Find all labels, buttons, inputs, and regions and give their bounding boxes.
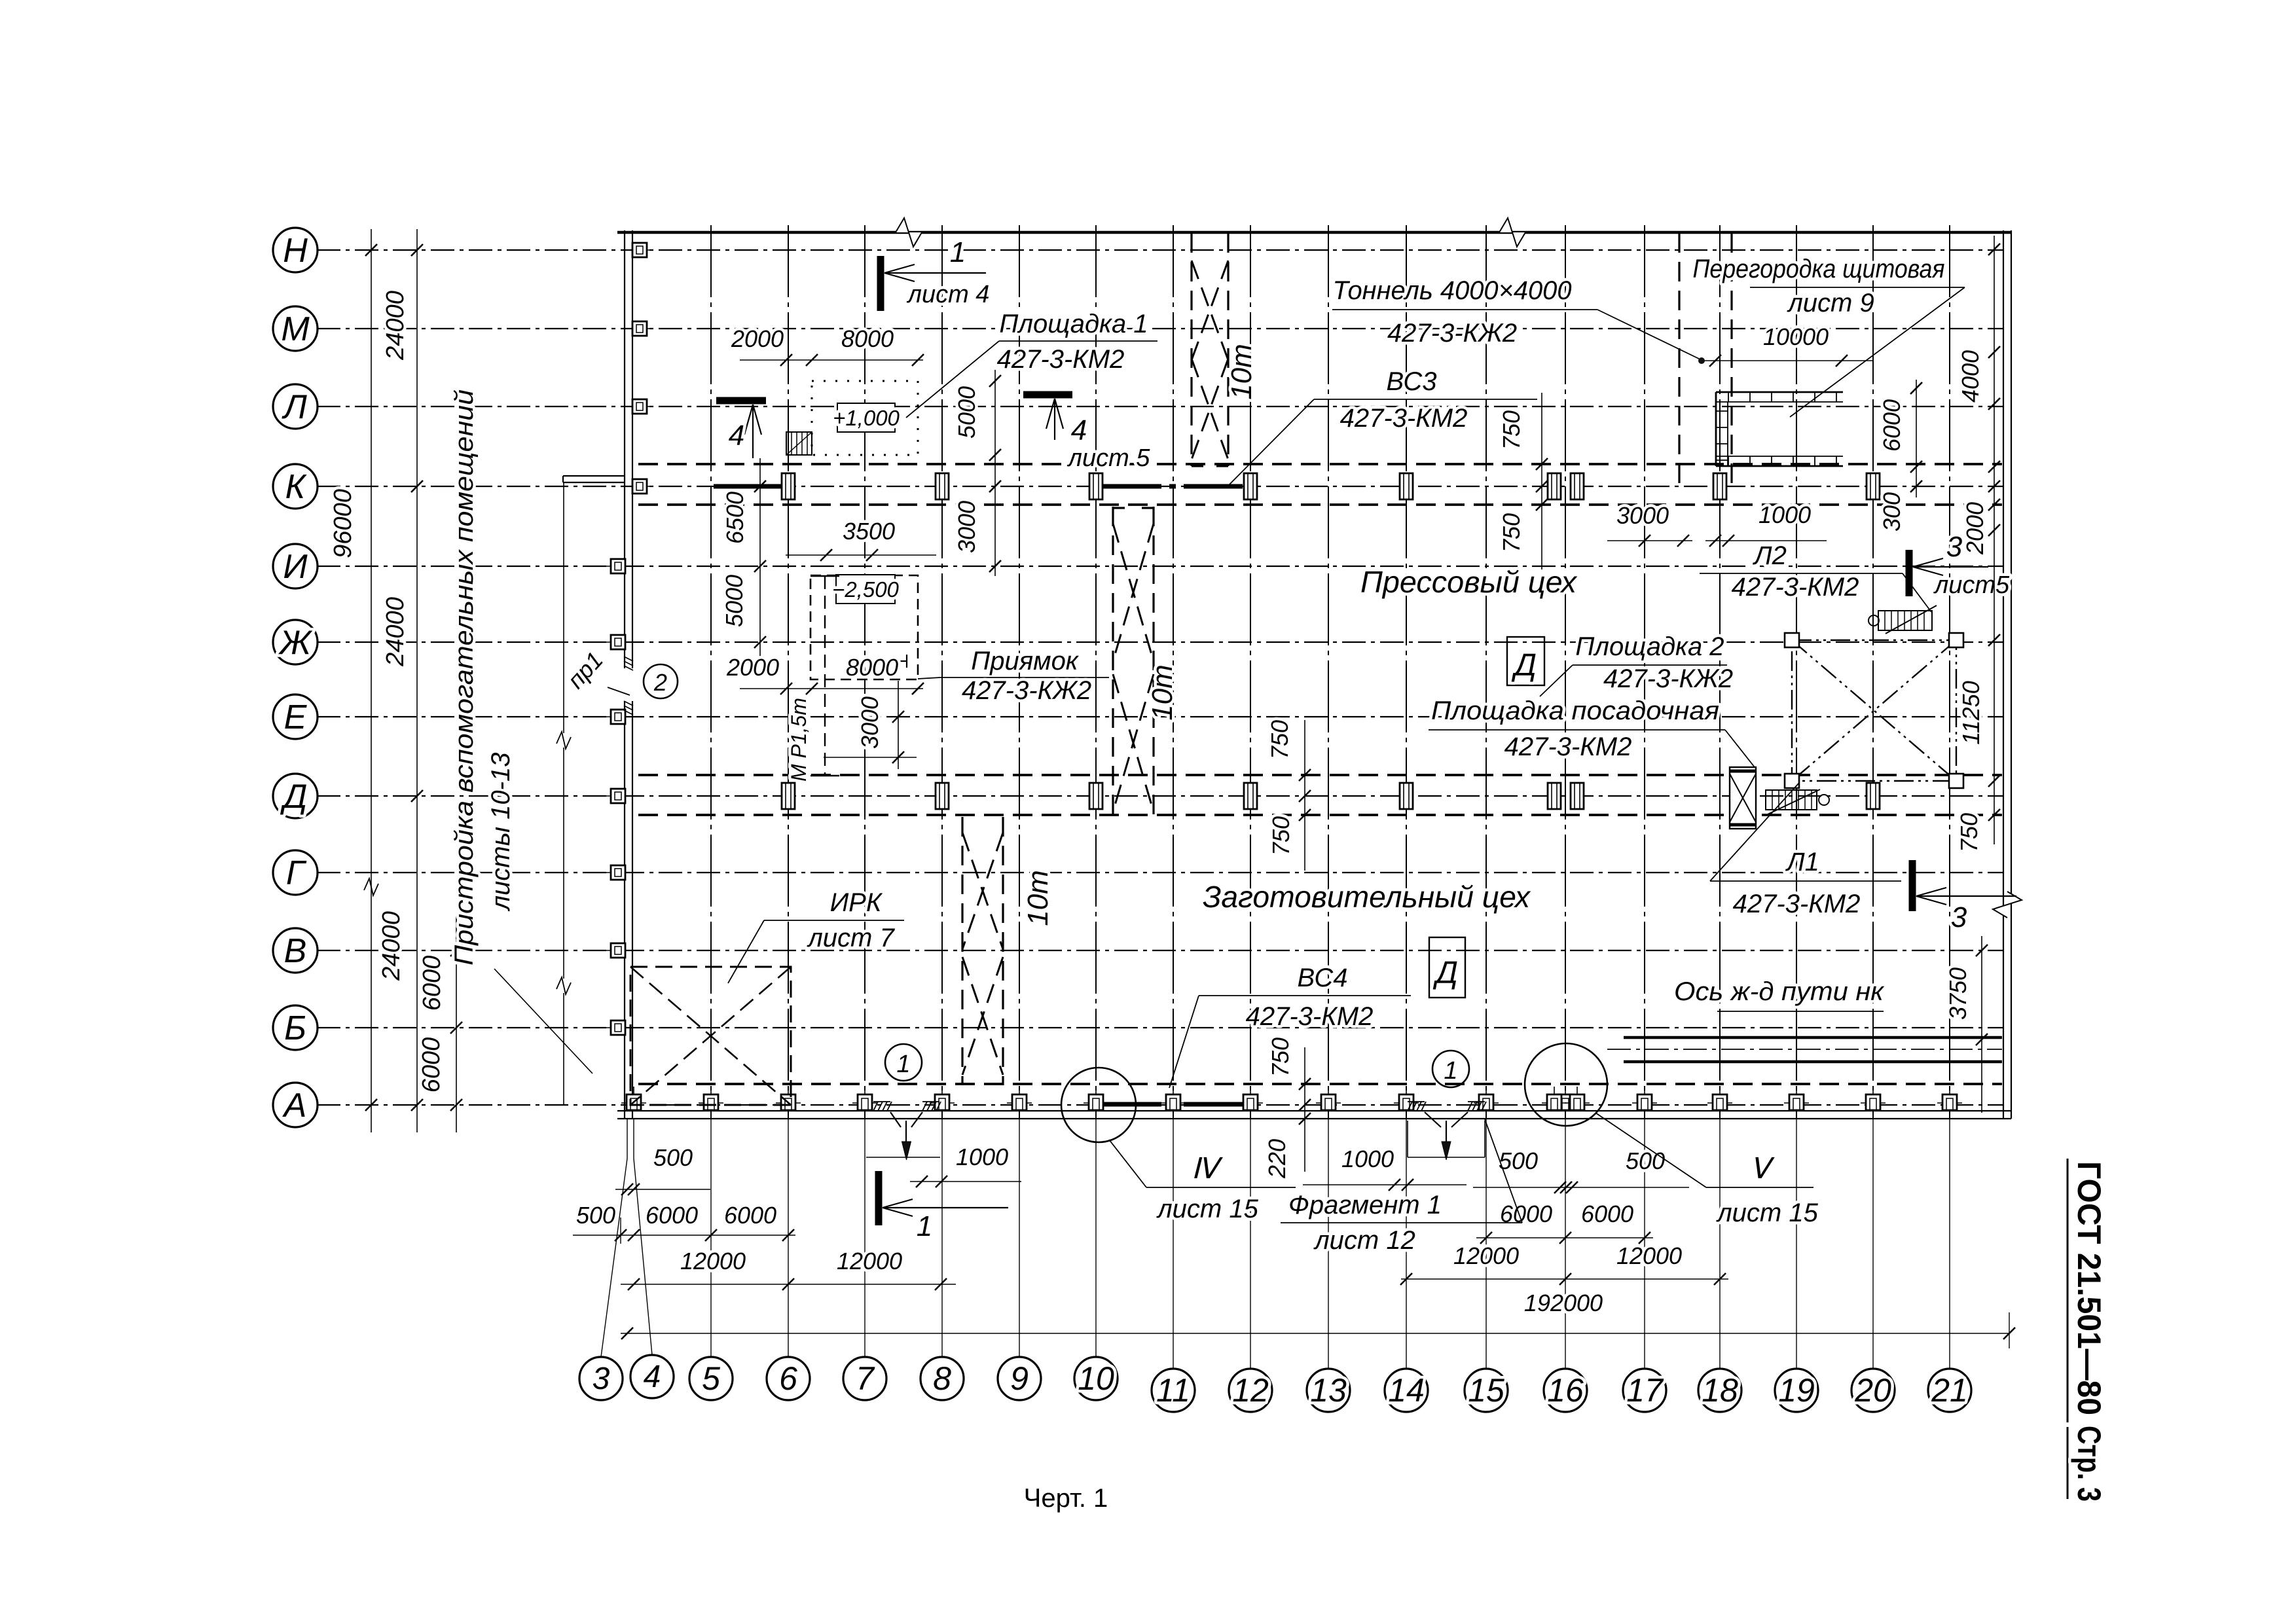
svg-text:3: 3 xyxy=(1951,901,1967,933)
svg-text:96000: 96000 xyxy=(329,489,357,558)
stair at row D xyxy=(1766,790,1817,810)
svg-text:Площадка 2: Площадка 2 xyxy=(1575,632,1724,661)
column axis line 20 xyxy=(1872,225,1874,1119)
svg-text:5000: 5000 xyxy=(953,386,980,439)
svg-text:10000: 10000 xyxy=(1763,323,1829,350)
column axis circle 9 xyxy=(998,1357,1041,1400)
column axis line 10 xyxy=(1095,225,1097,1119)
ramp outline at fragment door xyxy=(1408,1157,1485,1158)
svg-text:Стр. 3: Стр. 3 xyxy=(2071,1426,2107,1502)
dim 1000 door 7-8 xyxy=(910,1181,1021,1182)
column axis circle 12 xyxy=(1229,1369,1272,1412)
bottom dimension rows xyxy=(573,1144,2015,1348)
column axis line 8 xyxy=(941,225,943,1119)
svg-text:Е: Е xyxy=(284,698,308,736)
dim 3000 at K right xyxy=(1607,540,1692,541)
section mark 3 xyxy=(1906,550,1913,596)
svg-text:Д: Д xyxy=(280,778,308,816)
leader to circle 12 xyxy=(1250,1119,1251,1369)
canopy pr1 at row K xyxy=(563,475,625,477)
svg-text:1: 1 xyxy=(1444,1057,1457,1085)
svg-text:Л1: Л1 xyxy=(1785,848,1819,876)
row axis line М xyxy=(317,328,2003,329)
svg-text:10т: 10т xyxy=(1022,870,1054,926)
svg-text:500: 500 xyxy=(1626,1147,1665,1174)
door opening axes 7-8 hatched jambs xyxy=(873,1102,878,1111)
column axis circle 4 xyxy=(630,1355,674,1398)
svg-text:лист 9: лист 9 xyxy=(1787,289,1874,317)
column on row K at x=1910 xyxy=(1244,473,1257,499)
svg-text:Д: Д xyxy=(1432,956,1458,990)
svg-text:Л: Л xyxy=(282,388,307,426)
row axis line К xyxy=(317,486,2003,487)
svg-text:750: 750 xyxy=(1498,410,1525,450)
leader to circle 6 xyxy=(788,1119,789,1357)
column on row K at x=1439 xyxy=(936,473,949,499)
dim 10000 partition xyxy=(1702,360,1872,361)
dim line 24000s xyxy=(416,229,418,1132)
dim 6500/5000 line xyxy=(759,458,761,661)
platform 2 outline dash-dot-dot xyxy=(1792,640,1956,781)
column axis line 13 xyxy=(1328,225,1329,1119)
annex wall column row Е xyxy=(606,716,630,717)
right wall (double line) xyxy=(2003,230,2004,1119)
svg-text:12000: 12000 xyxy=(1616,1242,1682,1269)
elevation mark -2,500 xyxy=(836,575,895,604)
svg-text:24000: 24000 xyxy=(378,911,405,981)
node circles and detail marks xyxy=(885,1043,1819,1255)
svg-text:1: 1 xyxy=(896,1051,910,1078)
right dim line main xyxy=(1994,236,1995,785)
svg-text:17: 17 xyxy=(1626,1372,1664,1409)
section mark 1 xyxy=(877,256,884,311)
svg-text:500: 500 xyxy=(1499,1147,1538,1174)
column axis line 16 xyxy=(1565,225,1566,1119)
svg-text:12000: 12000 xyxy=(837,1248,902,1274)
row axis circle Ж xyxy=(273,620,318,664)
svg-text:Заготовительный цех: Заготовительный цех xyxy=(1203,880,1531,914)
column on row D at x=1204 xyxy=(782,783,795,809)
break symbol on top wall xyxy=(896,218,922,247)
svg-text:19: 19 xyxy=(1778,1372,1815,1409)
svg-text:300: 300 xyxy=(1878,492,1905,532)
column on row K at x=2627 xyxy=(1713,473,1726,499)
monorail line xyxy=(824,576,826,776)
platform 2 corner column xyxy=(1785,633,1799,647)
column on row K at x=2409 xyxy=(1571,473,1584,499)
column on row D at x=1439 xyxy=(936,783,949,809)
svg-text:13: 13 xyxy=(1310,1372,1347,1409)
platform 1 xyxy=(786,381,918,455)
svg-text:3750: 3750 xyxy=(1944,967,1971,1020)
svg-text:10т: 10т xyxy=(1226,344,1258,400)
annex wall column row Н xyxy=(628,249,651,251)
svg-text:750: 750 xyxy=(1498,513,1525,552)
row axis line Д xyxy=(317,795,2003,797)
right dimension block xyxy=(1878,236,2000,1113)
annex wall column row Л xyxy=(628,406,651,407)
left dimension block xyxy=(329,229,462,1132)
svg-text:427-3-КЖ2: 427-3-КЖ2 xyxy=(1603,664,1733,693)
column axis circle 6 xyxy=(767,1357,810,1400)
svg-text:лист 4: лист 4 xyxy=(907,281,990,308)
detail circle V xyxy=(1525,1043,1607,1126)
dim 192000 overall xyxy=(621,1333,2009,1334)
partition left ladder xyxy=(1715,392,1717,466)
svg-text:лист 5: лист 5 xyxy=(1067,444,1151,472)
svg-text:Б: Б xyxy=(284,1009,306,1047)
column on row A axis 8 xyxy=(930,1102,955,1104)
dim line 96000 xyxy=(371,229,372,1132)
doors xyxy=(866,1102,1486,1160)
column axis circle 14 xyxy=(1385,1369,1428,1412)
svg-text:427-3-КМ2: 427-3-КМ2 xyxy=(1340,404,1468,433)
column on row A axis 19 xyxy=(1784,1102,1809,1104)
svg-text:1: 1 xyxy=(950,236,966,268)
svg-text:7: 7 xyxy=(856,1360,875,1397)
column on row K at x=1674 xyxy=(1089,473,1102,499)
svg-text:8000: 8000 xyxy=(841,325,894,352)
svg-text:16: 16 xyxy=(1547,1372,1584,1409)
svg-text:М: М xyxy=(281,310,310,348)
D mark upper xyxy=(1507,637,1544,685)
dim 5000/3000 line xyxy=(994,370,996,576)
svg-text:лист 7: лист 7 xyxy=(807,924,895,952)
column on row A axis 15 xyxy=(1474,1102,1499,1104)
leader to circle 5 xyxy=(710,1119,712,1357)
dim 6000/6000 right xyxy=(1476,1237,1653,1238)
svg-text:1000: 1000 xyxy=(1758,501,1811,528)
svg-text:+1,000: +1,000 xyxy=(833,406,900,430)
IRK box diagonals xyxy=(630,967,791,1105)
platform 1 stair hatch xyxy=(786,432,812,455)
inner vertical dims xyxy=(721,370,1548,1179)
svg-text:Приямок: Приямок xyxy=(971,647,1080,676)
dim 3500 xyxy=(786,554,936,556)
dim line 6000s left xyxy=(456,916,457,1132)
svg-text:Ось ж-д пути нк: Ось ж-д пути нк xyxy=(1674,977,1885,1006)
column axis line 15 xyxy=(1485,225,1487,1119)
svg-text:21: 21 xyxy=(1931,1372,1968,1409)
node circle 1 right xyxy=(1432,1051,1469,1087)
column axis line 19 xyxy=(1796,225,1797,1119)
svg-text:6000: 6000 xyxy=(418,956,446,1011)
railway axis xyxy=(1607,1049,2002,1050)
row axis line Ж xyxy=(317,641,2003,643)
crane runway 10t upper hall rails xyxy=(1190,233,1192,466)
annex outline vertical line xyxy=(563,482,564,733)
svg-text:3: 3 xyxy=(592,1362,610,1396)
section mark 3 xyxy=(1909,860,1916,911)
partition top ladder xyxy=(1716,391,1843,393)
svg-text:220: 220 xyxy=(1264,1139,1290,1179)
dim 750/220 at A xyxy=(1304,1047,1305,1172)
svg-text:М Р1,5т: М Р1,5т xyxy=(787,698,811,782)
svg-text:Перегородка щитовая: Перегородка щитовая xyxy=(1693,255,1945,283)
svg-text:Тоннель 4000×4000: Тоннель 4000×4000 xyxy=(1333,276,1572,305)
svg-text:427-3-КМ2: 427-3-КМ2 xyxy=(1246,1002,1374,1031)
column on row A axis 16 xyxy=(1553,1102,1578,1104)
dim 1000 at K right xyxy=(1705,540,1827,541)
svg-text:15: 15 xyxy=(1468,1372,1504,1409)
leader to circle 13 xyxy=(1328,1119,1329,1369)
svg-text:К: К xyxy=(285,468,308,506)
svg-text:ВС4: ВС4 xyxy=(1298,964,1348,992)
svg-text:1: 1 xyxy=(917,1210,932,1242)
crane beam dashed line above A xyxy=(638,1083,2002,1085)
svg-text:4: 4 xyxy=(1071,414,1087,446)
crane cross bracing lower xyxy=(962,833,1003,949)
railway rail 2 xyxy=(1624,1060,2002,1064)
top wall xyxy=(617,231,2011,234)
svg-text:427-3-КМ2: 427-3-КМ2 xyxy=(1733,890,1861,918)
annex wall column row Г xyxy=(606,872,630,873)
leader to circle 18 xyxy=(1719,1119,1721,1369)
door axes 7-8 funnel and arrow xyxy=(890,1112,901,1127)
brace VS4 segment on row A axes 10-12 xyxy=(1102,1102,1247,1107)
break symbol on top wall xyxy=(1499,218,1525,247)
column axis circle 10 xyxy=(1074,1357,1118,1400)
svg-text:10т: 10т xyxy=(1146,664,1178,721)
svg-text:11: 11 xyxy=(1156,1372,1190,1409)
column axis circle 18 xyxy=(1698,1369,1741,1412)
row axis circle В xyxy=(273,928,318,973)
monorail xyxy=(787,576,839,782)
column axis circle 20 xyxy=(1851,1369,1895,1412)
dim 750/750 at K joint xyxy=(1541,393,1542,569)
column on row A axis 17 xyxy=(1632,1102,1657,1104)
svg-text:12: 12 xyxy=(1232,1372,1269,1409)
row axis circle Е xyxy=(273,695,318,739)
svg-text:12000: 12000 xyxy=(1453,1242,1519,1269)
annex wall column row Ж xyxy=(606,641,630,643)
dim row 500/6000/6000 xyxy=(573,1235,795,1236)
svg-text:427-3-КМ2: 427-3-КМ2 xyxy=(1504,732,1632,761)
extra joint columns row A axis 16 pair xyxy=(1542,1102,1567,1104)
dim 500/500 joint xyxy=(1473,1187,1689,1188)
brace VS segment on row K axes 5-6 xyxy=(714,484,786,489)
svg-text:Г: Г xyxy=(286,854,307,892)
horizontal dims upper xyxy=(726,323,1872,695)
row axis circle К xyxy=(273,464,318,509)
column axis circle 13 xyxy=(1307,1369,1350,1412)
svg-text:750: 750 xyxy=(1267,1038,1294,1077)
column on row K at x=2374 xyxy=(1548,473,1561,499)
tunnel 4000x4000 dashed walls xyxy=(1678,233,1680,485)
break symbol on right wall xyxy=(1993,892,2022,918)
svg-text:И: И xyxy=(283,548,308,586)
row axis circle Н xyxy=(273,228,318,272)
svg-text:750: 750 xyxy=(1956,813,1982,852)
column axis line 18 xyxy=(1719,225,1721,1119)
column on row D at x=2374 xyxy=(1548,783,1561,809)
annex captions xyxy=(450,389,592,1074)
leader to circle 16 xyxy=(1565,1119,1566,1369)
column axis circle 8 xyxy=(920,1357,964,1400)
row axis circle Л xyxy=(273,384,318,429)
leader to circle 19 xyxy=(1796,1119,1797,1369)
svg-text:10: 10 xyxy=(1078,1360,1114,1397)
railway xyxy=(1607,1038,2002,1062)
column axis line 14 xyxy=(1406,225,1407,1119)
column on row A axis 13 xyxy=(1316,1102,1341,1104)
svg-text:192000: 192000 xyxy=(1524,1290,1603,1316)
pit -2.500 xyxy=(811,575,918,679)
row axis circle Г xyxy=(273,850,318,895)
door fragment 1 funnel and arrow xyxy=(1425,1112,1441,1127)
column on row A axis 12 xyxy=(1238,1102,1263,1104)
svg-text:8: 8 xyxy=(933,1360,951,1397)
column on row A axis 20 xyxy=(1861,1102,1886,1104)
svg-text:11250: 11250 xyxy=(1958,681,1984,744)
node circle 1 left xyxy=(885,1044,922,1081)
annex wall column row Б xyxy=(606,1027,630,1028)
svg-text:Пристройка вспомогательных п: Пристройка вспомогательных помещений xyxy=(450,389,479,965)
crane beam dashed line above D xyxy=(638,774,2002,776)
row axis line Е xyxy=(317,716,2003,717)
D mark lower xyxy=(1429,937,1465,998)
column axis circle 5 xyxy=(689,1357,733,1400)
dim 500 below wall left xyxy=(615,1189,710,1190)
crane beam dashed line below D xyxy=(638,814,2002,816)
annex details xyxy=(556,476,678,1105)
annex wall column row В xyxy=(606,950,630,951)
crane runway 10t middle hall rails xyxy=(1112,507,1114,816)
column axis circle 19 xyxy=(1775,1369,1818,1412)
column on row A axis 18 xyxy=(1707,1102,1732,1104)
dim 2000/8000 bottom of pit xyxy=(740,688,923,689)
column axis circle 3 xyxy=(579,1357,623,1400)
column on row A axis 14 xyxy=(1394,1102,1419,1104)
leader to circle 20 xyxy=(1872,1119,1874,1369)
columns xyxy=(606,243,1962,1111)
svg-text:ВС3: ВС3 xyxy=(1387,367,1437,396)
building walls xyxy=(617,218,2022,1119)
svg-text:3000: 3000 xyxy=(856,696,883,749)
svg-text:6: 6 xyxy=(779,1360,797,1397)
row axis line Л xyxy=(317,406,2003,407)
leader to circle 15 xyxy=(1485,1119,1487,1369)
brace VS3 segment on row K axes 10-12 xyxy=(1102,484,1247,489)
cranes and tunnel xyxy=(962,233,1732,1085)
svg-text:лист 12: лист 12 xyxy=(1313,1226,1415,1255)
dim 750/750 at D xyxy=(1304,720,1305,871)
column axis line 12 xyxy=(1250,225,1251,1119)
svg-text:ИРК: ИРК xyxy=(830,888,883,917)
crane cross bracing upper xyxy=(1192,261,1228,360)
break on 96000 line xyxy=(364,878,378,895)
leader to circle 7 xyxy=(864,1119,866,1357)
break marks xyxy=(556,732,571,749)
svg-text:−2,500: −2,500 xyxy=(832,577,899,602)
column axis circle 16 xyxy=(1544,1369,1587,1412)
column on row A axis 7 xyxy=(852,1102,877,1104)
svg-text:8000: 8000 xyxy=(846,654,898,681)
annex wall column row И xyxy=(606,566,630,567)
door opening fragment 1 hatched jambs xyxy=(1408,1102,1412,1111)
column axis circle 17 xyxy=(1623,1369,1666,1412)
column axis line 5 xyxy=(710,225,712,1119)
svg-text:3000: 3000 xyxy=(953,501,980,553)
leader to circle 3 xyxy=(627,1119,628,1159)
column on row A axis 21 xyxy=(1937,1102,1962,1104)
column on row K at x=2861 xyxy=(1867,473,1880,499)
annex wall column row К xyxy=(628,486,651,487)
svg-text:6000: 6000 xyxy=(1581,1200,1633,1227)
IRK dashed box xyxy=(630,967,791,1105)
svg-text:20: 20 xyxy=(1854,1372,1891,1409)
section mark 1 xyxy=(875,1171,883,1225)
left annex wall (double line) xyxy=(624,230,625,1119)
svg-text:24000: 24000 xyxy=(382,291,409,361)
row axis circle М xyxy=(273,306,318,351)
row axis line Н xyxy=(317,249,2003,251)
leader to circle 21 xyxy=(1949,1119,1950,1369)
svg-text:лист 15: лист 15 xyxy=(1716,1199,1818,1227)
partition bottom ladder xyxy=(1716,465,1843,467)
annex wall column row М xyxy=(628,328,651,329)
platform 2 corner column xyxy=(1949,633,1963,647)
column on row A axis 5 xyxy=(699,1102,723,1104)
row axis circle И xyxy=(273,544,318,588)
column axis line 9 xyxy=(1019,225,1020,1119)
crane beam dashed line above K xyxy=(638,463,2002,465)
annotation labels xyxy=(728,255,1965,1088)
svg-text:3000: 3000 xyxy=(1616,502,1669,529)
row axis line Б xyxy=(317,1027,2003,1028)
dim 2000/8000 top xyxy=(740,359,923,361)
row axis circle Б xyxy=(273,1005,318,1050)
column on row D at x=1910 xyxy=(1244,783,1257,809)
svg-text:4000: 4000 xyxy=(1957,350,1984,403)
section mark 4 xyxy=(1023,391,1072,399)
svg-text:листы 10-13: листы 10-13 xyxy=(486,753,515,912)
svg-text:6000: 6000 xyxy=(646,1202,698,1229)
svg-text:Прессовый цех: Прессовый цех xyxy=(1360,565,1578,599)
svg-text:2000: 2000 xyxy=(726,654,779,681)
vertical bracing thick segments xyxy=(714,486,1247,1104)
svg-text:750: 750 xyxy=(1266,720,1293,759)
landing platform and stairs xyxy=(1730,605,1937,829)
column axis line 7 xyxy=(864,225,866,1119)
column axis line 21 xyxy=(1949,225,1950,1119)
svg-text:Площадка 1: Площадка 1 xyxy=(999,310,1148,338)
svg-text:6500: 6500 xyxy=(721,492,748,544)
column axis circle 21 xyxy=(1928,1369,1971,1412)
column on row D at x=2861 xyxy=(1867,783,1880,809)
svg-text:5000: 5000 xyxy=(721,575,748,627)
svg-text:Ж: Ж xyxy=(278,624,313,662)
svg-text:4: 4 xyxy=(644,1360,661,1394)
svg-text:427-3-КЖ2: 427-3-КЖ2 xyxy=(962,676,1091,705)
dim 12000/12000 right xyxy=(1401,1278,1728,1280)
row axis line А xyxy=(317,1104,2003,1106)
row axis circle А xyxy=(273,1083,318,1127)
column on row D at x=2409 xyxy=(1571,783,1584,809)
annex wall column row Д xyxy=(606,795,630,797)
svg-text:2000: 2000 xyxy=(731,325,784,352)
svg-text:6000: 6000 xyxy=(1878,399,1905,452)
monorail end T top xyxy=(811,575,839,577)
svg-text:Фрагмент 1: Фрагмент 1 xyxy=(1288,1191,1442,1219)
railway rail 1 xyxy=(1624,1036,2002,1039)
svg-text:18: 18 xyxy=(1702,1372,1738,1409)
bottom wall (double line) xyxy=(617,1110,2011,1111)
GOST stamp line xyxy=(2067,1159,2069,1422)
svg-text:14: 14 xyxy=(1388,1372,1425,1409)
crane cross bracing middle xyxy=(1113,524,1154,661)
elevation mark +1,000 xyxy=(837,403,895,432)
